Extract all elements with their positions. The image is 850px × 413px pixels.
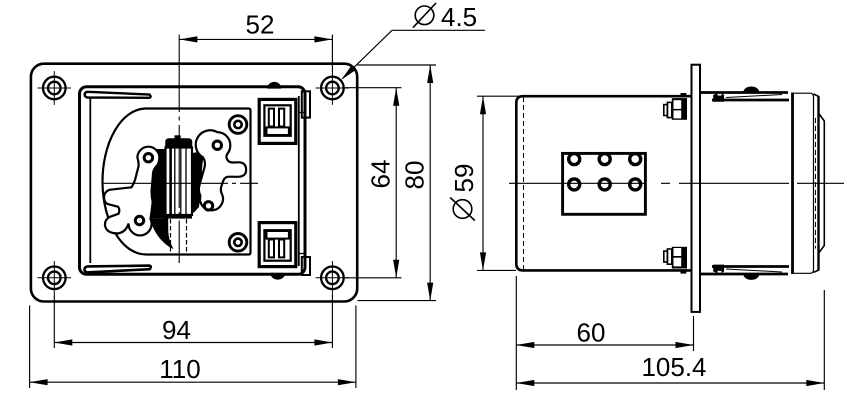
right wing hole bottom [204,202,212,210]
dimension 94 [54,295,332,348]
top spring sliver [85,92,151,98]
rivet dome top [743,87,759,92]
vertical centerline left view [178,35,180,263]
svg-text:4.5: 4.5 [441,2,477,32]
svg-text:59: 59 [449,164,479,193]
svg-text:64: 64 [366,160,396,189]
left wing hole bottom [135,216,143,224]
front face outline [793,93,825,273]
centerline right view [509,182,844,184]
flange bolt top [664,93,687,120]
dimension 60 [516,276,693,390]
dimension 64 [345,88,402,278]
mounting hole top-left [38,71,72,105]
mounting hole bottom-left [38,261,72,295]
inner body rectangle [80,87,306,274]
terminal block top [259,99,296,143]
flange outline [31,64,357,302]
top edge bump [268,83,281,89]
mounting hole top-right [316,71,350,105]
bottom latch tab right [302,257,310,275]
right wing hole top [213,141,221,149]
rivet dome bottom [743,274,759,279]
cylinder bottom band [166,214,193,219]
svg-text:110: 110 [159,354,200,384]
dimension diameter 59 [449,96,521,270]
socket D-shape outline [103,109,251,255]
body outline side view [516,96,692,270]
bottom edge bump [271,274,285,280]
flange bolt bottom [664,247,687,274]
terminal strip 6 holes [563,153,646,214]
inner left double line [89,98,91,263]
bottom spring sliver [84,266,150,273]
horizontal centerline left view [103,182,258,184]
terminal block bottom [259,223,296,267]
cylinder cap [166,139,192,148]
right wing shadow fill [193,151,205,213]
screw ring top [229,116,247,134]
front face hidden line [815,118,817,249]
dimension 110 [30,306,356,389]
latch hook top [713,93,724,102]
svg-text:94: 94 [162,315,191,345]
cylinder cap nub [175,135,181,139]
screw ring bottom [229,234,247,252]
mounting hole bottom-right [316,261,350,295]
body hidden edge dashed [523,97,525,270]
lid divider vertical [791,93,794,275]
left wing hole top [144,154,152,162]
right wing lever [196,130,246,210]
dimension 105.4 [516,290,824,390]
left wing shadow fill [151,149,166,219]
cylinder hidden edges dashed [171,219,187,252]
cylinder body [166,148,193,216]
dimension diameter 4.5 leader [341,2,485,80]
top latch tab right [302,91,310,117]
svg-text:105.4: 105.4 [641,352,706,382]
svg-text:60: 60 [577,318,606,348]
flange plate side view [692,65,701,312]
svg-text:52: 52 [246,9,275,39]
dimension 80 [358,65,437,301]
right channel tick top [299,112,306,114]
inner right double line [298,96,300,266]
right channel tick bottom [299,253,306,255]
cylinder stripes [171,148,186,214]
svg-text:80: 80 [400,161,430,190]
left wing lower shadow fill [151,219,174,250]
lid bottom edge [700,267,789,275]
dimension 52 [179,9,332,71]
latch hook bottom [713,265,724,274]
lid top edge [700,93,789,101]
left wing lever [104,147,159,236]
